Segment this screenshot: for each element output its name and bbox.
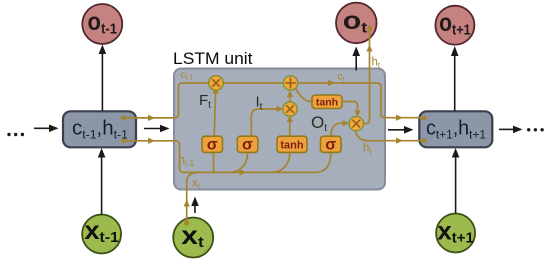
LSTM unit box	[174, 69, 385, 190]
right state box	[419, 111, 492, 147]
wire sigma1 out to multiply1	[214, 92, 215, 136]
gate box tanh bottom	[277, 136, 307, 152]
wire h_t-1 in: from left box dot, down, bottom bus to sigma4	[124, 141, 331, 173]
wire tanh bottom out to multiply2	[289, 121, 291, 136]
svg-text:tanh: tanh	[280, 140, 304, 152]
wire x_t in: from x_t circle dot up into bus	[187, 173, 197, 224]
gate box sigma2	[237, 136, 257, 153]
node o_t-1 circle	[82, 4, 122, 44]
multiply op circle 3 (output)	[349, 116, 363, 130]
gate box sigma1	[202, 136, 223, 153]
multiply op circle 1 (forget)	[209, 76, 224, 91]
add op circle	[283, 76, 297, 90]
node x_t-1 circle	[82, 215, 121, 254]
gate box sigma4	[321, 136, 342, 153]
svg-text:σ: σ	[325, 137, 336, 154]
svg-text:σ: σ	[242, 137, 253, 154]
arrow x_t-1 up to left box	[98, 148, 106, 215]
arrow LSTM top to o_t	[352, 47, 360, 71]
wire sigma2 out to multiply2 (I gate)	[251, 109, 278, 136]
wire sigma4 out to multiply3 (O gate)	[331, 123, 344, 136]
wire add to tanh top	[295, 88, 311, 102]
svg-text:σ: σ	[207, 137, 218, 154]
arrow x_t+1 up to right box	[452, 148, 460, 214]
arrow dots to left state box	[34, 125, 59, 133]
left state box	[63, 111, 136, 147]
wire c_t out: add to right box dot	[298, 83, 424, 118]
svg-text:tanh: tanh	[316, 97, 338, 109]
wire bus to sigma1	[213, 153, 215, 173]
arrow left state box to LSTM	[144, 125, 170, 133]
wire c_t-1 in: from left box dot to forget gate multiply	[124, 83, 209, 118]
wire bus to tanh bottom	[271, 153, 290, 173]
wire bus to sigma2	[229, 153, 248, 173]
bus arrow marker	[240, 169, 247, 175]
gate box tanh top	[312, 95, 342, 109]
wire h_t up: multiply3 to o_t dot	[363, 29, 369, 124]
wire tanh top out to multiply3	[342, 102, 358, 112]
arrow right box up to o_t+1	[451, 46, 459, 111]
node o_t+1 circle	[435, 6, 474, 45]
arrow x_t up to LSTM bottom	[191, 197, 199, 214]
node x_t+1 circle	[436, 214, 475, 253]
node dots right ...	[527, 128, 544, 131]
svg-text:LSTM unit: LSTM unit	[173, 49, 253, 68]
wire h_t out: multiply3 to right box dot	[355, 130, 424, 141]
wire multiply2 to add	[289, 96, 291, 102]
arrow right state box to dots	[499, 126, 523, 134]
multiply op circle 2 (input)	[283, 102, 297, 116]
node dots left ...	[7, 133, 24, 136]
node x_t circle	[173, 218, 213, 258]
arrow LSTM to right state box	[388, 126, 414, 134]
node o_t circle	[336, 3, 377, 44]
arrow left box up to o_t-1	[99, 45, 107, 112]
wire multiply1 to add	[223, 82, 283, 84]
